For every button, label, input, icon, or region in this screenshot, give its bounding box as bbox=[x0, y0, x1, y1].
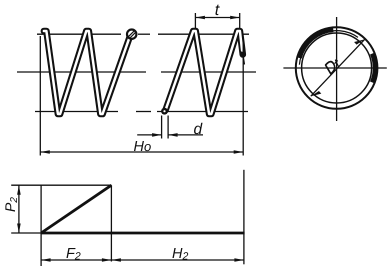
node diagram left axis bbox=[40, 185, 42, 266]
wire bottom tangent line bbox=[35, 111, 248, 113]
svg-text:t: t bbox=[215, 2, 220, 19]
node diagram top plateau line bbox=[11, 184, 111, 186]
wire coil end arc top-left bbox=[299, 30, 358, 65]
dimension t (pitch) bbox=[195, 2, 239, 29]
node diagram baseline bbox=[11, 232, 244, 234]
wire spring coil left half bbox=[44, 31, 130, 114]
svg-text:P2: P2 bbox=[2, 197, 20, 212]
wire spring coil right half bbox=[166, 31, 245, 114]
dimension F2 (deflection) bbox=[41, 246, 111, 263]
svg-text:d: d bbox=[194, 121, 204, 138]
dimension H0 (free length) bbox=[40, 36, 243, 156]
wire coil outer circle (top view) bbox=[296, 27, 378, 109]
wire top tangent line bbox=[37, 33, 249, 35]
dimension D (mean coil diameter) bbox=[311, 39, 365, 96]
node wire cross-section ring (right half bottom end) bbox=[161, 108, 168, 115]
svg-text:Ho: Ho bbox=[134, 139, 152, 155]
wire coil end arc right bbox=[372, 54, 375, 83]
node wire cross-section hatched (left half top end) bbox=[127, 30, 136, 39]
dimension H2 (loaded length) bbox=[111, 246, 244, 263]
node circle view centerlines bbox=[283, 17, 386, 121]
dimension P2 (force) bbox=[2, 185, 21, 233]
wire diagram characteristic diagonal bbox=[41, 185, 111, 233]
node diagram vertical right end bbox=[243, 170, 245, 264]
svg-text:F2: F2 bbox=[66, 246, 81, 263]
node diagram vertical at F2 bbox=[110, 185, 112, 261]
wire coil inner circle (top view) bbox=[302, 33, 372, 103]
svg-text:H2: H2 bbox=[172, 246, 188, 263]
node spring-axis centerline left bbox=[17, 71, 256, 73]
dimension d (wire diameter) bbox=[137, 116, 203, 139]
